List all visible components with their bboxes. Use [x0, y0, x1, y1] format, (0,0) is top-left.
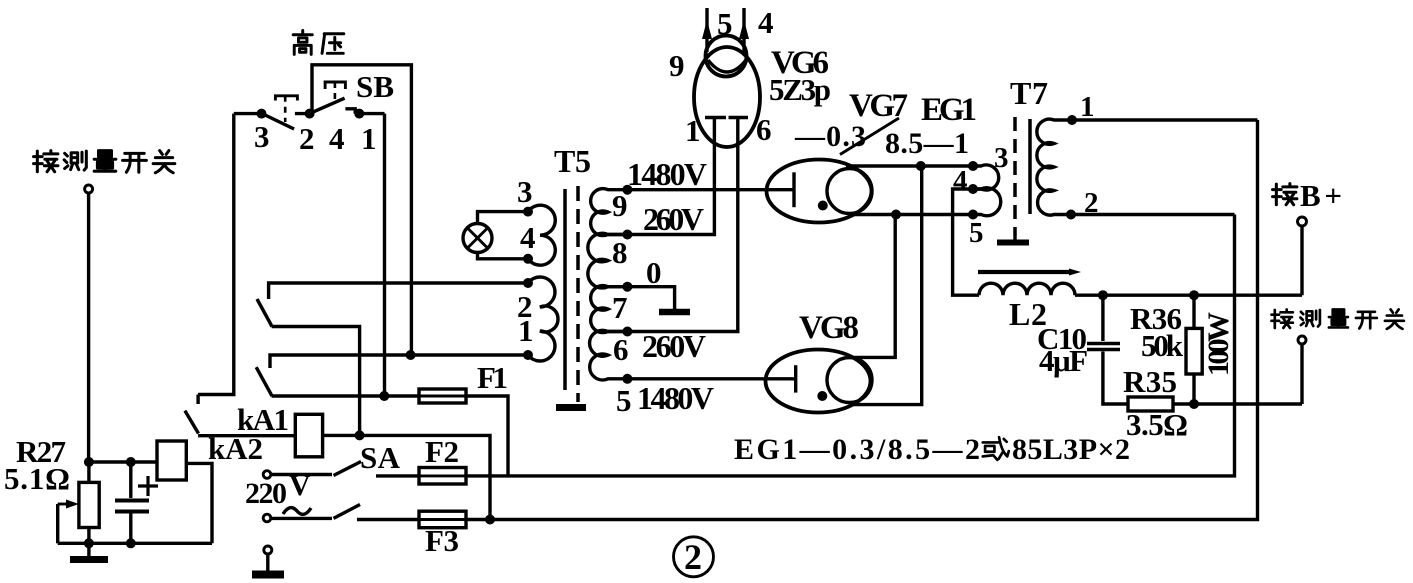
T7 core solid line	[1028, 119, 1032, 214]
wire SA to F3	[357, 518, 419, 521]
wire kA1 coil output to F3 line	[323, 435, 490, 519]
resistor R35	[1128, 397, 1173, 411]
T5 primary winding section 6-5	[590, 330, 628, 380]
svg-text:9: 9	[612, 188, 628, 223]
junction dot contact1/kA1-coil wire	[355, 430, 365, 440]
junction dot kA1 wire to F3 line	[485, 515, 495, 525]
svg-text:—0.3: —0.3	[794, 120, 866, 153]
svg-text:4: 4	[520, 220, 536, 255]
switch SB wire left segment	[234, 112, 262, 115]
wire F2 output to T7 pin2 riser	[466, 215, 1235, 476]
svg-text:4: 4	[758, 5, 774, 40]
tube VG8 envelope	[766, 350, 871, 413]
svg-text:8: 8	[612, 235, 628, 270]
relay coil kA2	[157, 441, 186, 480]
T5 core dashed line	[576, 186, 580, 402]
wire 高压 loop from SB pin2 up over to T5 pin1 wire	[312, 65, 411, 355]
kA1 contact b blade	[256, 367, 272, 396]
resistor R36 (vertical)	[1186, 295, 1202, 404]
SB pin4 fixed contact step	[345, 109, 355, 114]
terminal 220V lower	[263, 514, 271, 522]
wire 220V lower to SA	[271, 517, 332, 520]
T5 primary winding section 8-7	[588, 233, 628, 288]
svg-text:3: 3	[254, 119, 270, 154]
svg-text:F2: F2	[425, 434, 459, 469]
svg-text:F3: F3	[425, 523, 459, 558]
capacitor (electrolytic, + marked)	[115, 462, 158, 543]
svg-text:85L3P×2: 85L3P×2	[1012, 433, 1130, 466]
ground (earth bar)	[252, 554, 284, 575]
switch SA blade lower	[334, 505, 361, 519]
ground (0 tap)	[659, 309, 690, 316]
figure number ②	[674, 537, 714, 577]
kA1 contact a lower wire down to kA1 coil output	[272, 327, 360, 436]
svg-text:3.5Ω: 3.5Ω	[1126, 407, 1188, 442]
wire VG8 upper output riser to VG7 lower wire	[848, 215, 895, 358]
svg-text:50k: 50k	[1141, 328, 1184, 363]
ground (below R27)	[70, 556, 108, 563]
wire from left terminal down	[87, 193, 90, 462]
svg-text:SA: SA	[360, 440, 401, 475]
T5 core solid line	[563, 189, 567, 390]
wire 0 tap to ground	[627, 287, 674, 309]
kA2 contact blade	[185, 411, 199, 434]
junction dot VG8 riser on VG7 upper wire	[916, 161, 926, 171]
terminal 接测量开关 (right)	[1298, 336, 1306, 344]
kA1 contact b: top wire to T5 pin1	[270, 355, 528, 368]
svg-text:1: 1	[685, 113, 701, 148]
kA2 contact fixed stub	[196, 395, 199, 405]
earth terminal under 220V	[264, 546, 272, 554]
junction dot VG8 upper riser on VG7 lower wire	[891, 210, 901, 220]
svg-text:1: 1	[518, 313, 534, 348]
wire right terminal down to R35 rail	[1300, 344, 1303, 404]
svg-text:8.5—1: 8.5—1	[885, 127, 969, 160]
SB pin 1 dot	[354, 109, 364, 119]
svg-text:4: 4	[953, 165, 968, 197]
svg-text:1: 1	[1080, 91, 1095, 123]
VG6 anode top circle	[706, 36, 747, 77]
svg-text:4: 4	[329, 121, 345, 156]
svg-text:5: 5	[969, 217, 984, 249]
svg-text:V: V	[289, 469, 311, 502]
wire VG7 lower output to T7 pin5	[852, 213, 973, 216]
svg-text:7: 7	[612, 290, 628, 325]
resistor R27 (rheostat body)	[79, 482, 99, 527]
wire lamp to T5 pin4	[478, 253, 529, 259]
SB pin 3 dot	[257, 109, 267, 119]
wire kA2 coil to bottom line	[186, 463, 212, 543]
node label 接测量开关 (left measurement-switch terminal)	[34, 151, 175, 173]
SB wire segment to pin2	[295, 112, 311, 115]
T7 primary winding section 4-5	[973, 188, 1001, 216]
svg-text:4μF: 4μF	[1039, 343, 1088, 378]
wire SB pin3 down to kA2 contact	[198, 114, 234, 395]
wire R35 output rail	[1173, 402, 1302, 405]
svg-text:T5: T5	[554, 143, 591, 179]
VG7 cathode bar	[792, 172, 795, 207]
fuse F3	[419, 511, 466, 528]
inductor L2 winding	[979, 283, 1075, 295]
VG6 filament pin 1 bar	[705, 116, 726, 119]
inductor L2 core arrow line	[978, 269, 1081, 276]
T7 core dashed line	[1013, 117, 1017, 236]
VG6 filament pin 6 bar	[729, 116, 749, 119]
wire 1480V bottom tap to VG8 cathode	[627, 377, 795, 380]
wire 220V upper to SA	[271, 473, 332, 476]
VG6 inner arc	[708, 60, 746, 72]
SB blade 2-4 (normally open)	[311, 98, 344, 113]
terminal 220V upper	[263, 471, 271, 479]
SB pushbutton actuator T (left)	[275, 96, 297, 122]
svg-text:SB: SB	[356, 69, 394, 104]
wire T7 pin4 down to L2	[953, 189, 979, 295]
SB blade 3-2 (normally closed)	[264, 115, 294, 130]
rectifier tube VG6 envelope	[694, 47, 760, 147]
T5 pin3 dot	[523, 207, 533, 217]
kA1 contact b lower wire to F1	[272, 394, 419, 397]
ground (T5 core)	[556, 404, 586, 411]
wire B+ rail	[1075, 294, 1302, 297]
VG6 anode lead 5 with arrow	[702, 8, 712, 52]
svg-text:5: 5	[616, 383, 632, 418]
svg-text:3: 3	[994, 142, 1009, 174]
fuse F1	[419, 389, 466, 403]
svg-text:VG8: VG8	[799, 310, 859, 346]
wire VG7 upper output to T7 pin3	[846, 164, 973, 167]
svg-text:2: 2	[684, 537, 702, 577]
kA1 contact a: top wire to T5 pin2	[269, 283, 528, 299]
svg-text:kA1: kA1	[237, 402, 289, 437]
svg-text:5.1Ω: 5.1Ω	[4, 461, 70, 496]
svg-text:220: 220	[245, 477, 287, 510]
svg-text:EG1—0.3/8.5—2: EG1—0.3/8.5—2	[734, 433, 980, 466]
node label 接测量开关 (right)	[1271, 309, 1403, 328]
wire bottom node line	[58, 542, 212, 545]
label ~	[283, 508, 311, 515]
VG8 anode circle	[827, 358, 872, 403]
wire T7 pin2 to right riser	[1071, 213, 1235, 216]
VG8 cathode bar	[794, 365, 797, 392]
svg-text:260V: 260V	[642, 328, 706, 364]
svg-text:2: 2	[299, 121, 315, 156]
wire T7 pin1 to right riser	[1072, 118, 1258, 121]
svg-text:1480V: 1480V	[627, 156, 707, 192]
junction dot SB pin1 riser on F1 wire	[379, 391, 389, 401]
svg-text:EG1: EG1	[921, 92, 977, 128]
lamp (indicator) on T5 winding 3-4	[463, 224, 492, 253]
wire B+ terminal down to rail	[1300, 226, 1303, 295]
wire top node to kA2 coil	[89, 460, 157, 463]
ground (T7 core)	[997, 236, 1029, 243]
value label EG1-0.3/8.5-2 或 85L3P×2	[734, 433, 1130, 466]
SB pin 2 dot	[305, 109, 315, 119]
SB wire to pin 1 and right	[355, 112, 384, 115]
svg-text:5Z3p: 5Z3p	[769, 72, 831, 107]
T5 primary winding section 9-8	[591, 189, 628, 236]
junction dot 高压 wire on T5-pin1 wire	[406, 350, 416, 360]
T5 pin1 dot	[523, 350, 533, 360]
T7 pin2 dot	[1066, 210, 1076, 220]
T7 secondary winding 1-2	[1037, 119, 1072, 215]
VG7 anode circle	[827, 169, 872, 214]
R27 wiper arrow	[58, 503, 72, 506]
T5 winding 3-4	[528, 205, 555, 265]
svg-text:1: 1	[361, 121, 377, 156]
svg-text:5: 5	[717, 6, 733, 41]
T5 pin4 dot	[523, 254, 533, 264]
node label 接B+	[1273, 178, 1342, 213]
T5 pin2 dot	[523, 278, 533, 288]
terminal (left measurement switch)	[85, 185, 93, 193]
T7 primary tap dots 3,4,5	[968, 161, 978, 220]
wire VG8 lower output riser to VG7 upper wire	[852, 166, 921, 405]
wire SA to F2	[376, 474, 419, 477]
label 高压	[293, 31, 344, 55]
T5 winding 2-1	[528, 277, 558, 361]
VG8 grid dot	[817, 391, 827, 401]
relay coil kA1	[295, 414, 322, 457]
T7 pin1 dot	[1067, 115, 1077, 125]
svg-text:6: 6	[756, 112, 772, 147]
svg-text:1480V: 1480V	[637, 380, 714, 416]
svg-text:3: 3	[517, 174, 533, 209]
wire F3 output to T7 pin1 riser	[466, 120, 1258, 520]
tube VG7 envelope	[767, 160, 872, 223]
junction dot R36 bottom	[1189, 399, 1199, 409]
kA1 contact a blade	[257, 299, 272, 327]
wire kA2 blade to kA1 coil	[198, 434, 295, 437]
VG7 grid dot	[818, 201, 828, 211]
node junction dots at R27 top node	[84, 457, 94, 467]
fuse F2	[419, 468, 466, 485]
svg-text:R35: R35	[1123, 364, 1177, 399]
svg-text:260V: 260V	[643, 201, 704, 237]
wire F1 output to F2 line	[466, 396, 508, 476]
T5 primary winding section 7-6	[591, 286, 628, 333]
wire SB pin1 down to F1 junction	[383, 114, 386, 396]
VG6 anode lead 4 with arrow	[739, 8, 749, 54]
junction dot R36 top	[1189, 290, 1199, 300]
svg-text:9: 9	[669, 48, 685, 83]
svg-text:0: 0	[646, 255, 662, 290]
wire 260V upper tap to VG6 pin1	[627, 118, 714, 235]
wire 260V lower tap to VG6 pin6	[627, 118, 737, 332]
svg-text:100W: 100W	[1202, 312, 1235, 376]
slash between -0.3 and 8.5-1	[840, 118, 899, 155]
switch SA blade upper	[334, 462, 362, 476]
junction dot C10 top	[1098, 290, 1108, 300]
svg-text:T7: T7	[1010, 75, 1048, 111]
capacitor C10	[1087, 295, 1128, 404]
wire lamp to T5 pin3	[478, 212, 529, 224]
T7 primary winding section 3-4	[973, 165, 999, 190]
wire 1480V top tap to VG7 cathode	[627, 188, 794, 191]
SB pushbutton actuator T (right)	[325, 82, 345, 104]
terminal 接B+	[1298, 217, 1307, 226]
svg-text:F1: F1	[477, 360, 508, 395]
T5 tap dots 9,260V,0,6,5	[622, 185, 632, 384]
svg-text:6: 6	[613, 332, 629, 367]
